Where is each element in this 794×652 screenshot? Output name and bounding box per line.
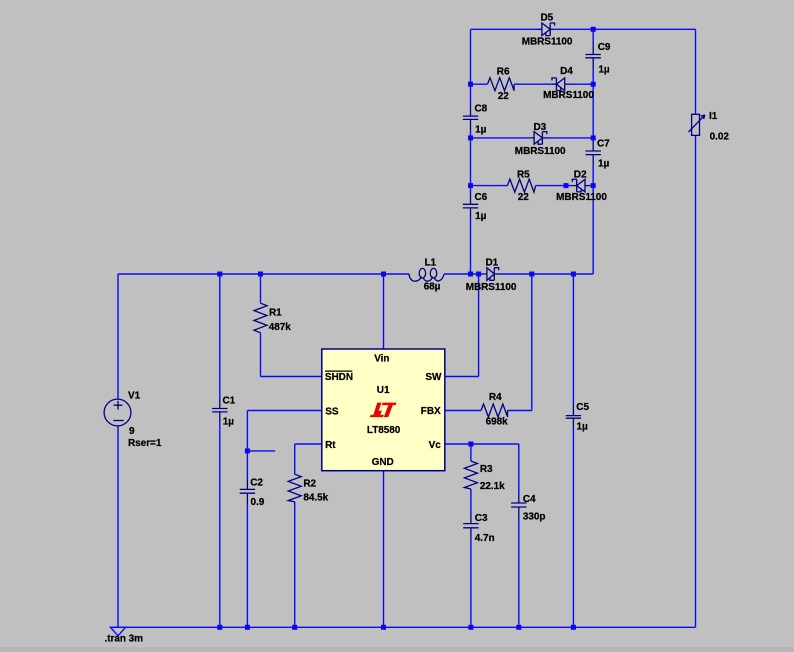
svg-text:22.1k: 22.1k [480,481,505,492]
svg-text:22: 22 [518,192,530,203]
svg-text:SS: SS [325,406,339,417]
svg-text:D3: D3 [534,122,547,133]
svg-text:R6: R6 [497,66,510,77]
svg-text:R2: R2 [303,479,316,490]
svg-text:Vc: Vc [429,440,442,451]
svg-text:330p: 330p [523,511,546,522]
svg-text:LT8580: LT8580 [367,425,401,436]
svg-text:R1: R1 [269,307,282,318]
svg-text:GND: GND [372,457,394,468]
svg-text:1µ: 1µ [223,417,235,428]
svg-text:U1: U1 [377,385,390,396]
svg-text:L1: L1 [425,257,437,268]
svg-text:V1: V1 [128,390,141,401]
svg-text:C8: C8 [475,103,488,114]
svg-text:I1: I1 [709,111,718,122]
svg-text:MBRS1100: MBRS1100 [543,90,594,101]
svg-text:C7: C7 [597,139,610,150]
svg-text:84.5k: 84.5k [303,492,328,503]
svg-text:R5: R5 [517,170,530,181]
svg-text:Vin: Vin [374,354,389,365]
svg-text:1µ: 1µ [475,211,487,222]
svg-text:0.9: 0.9 [251,497,265,508]
svg-text:C2: C2 [250,478,263,489]
svg-text:R3: R3 [480,464,493,475]
svg-text:C9: C9 [598,42,611,53]
svg-text:D4: D4 [560,66,573,77]
svg-text:22: 22 [498,91,510,102]
svg-text:1µ: 1µ [475,124,487,135]
svg-text:FBX: FBX [421,406,441,417]
svg-text:1µ: 1µ [577,422,589,433]
svg-text:0.02: 0.02 [710,132,730,143]
svg-text:9: 9 [129,426,135,437]
svg-text:SHDN: SHDN [325,372,353,383]
svg-text:D2: D2 [574,170,587,181]
svg-text:SW: SW [425,372,442,383]
svg-text:487k: 487k [269,322,292,333]
svg-text:C6: C6 [475,192,488,203]
svg-text:Rser=1: Rser=1 [128,438,162,449]
svg-text:698k: 698k [486,417,509,428]
svg-text:.tran 3m: .tran 3m [105,634,144,645]
svg-text:C3: C3 [475,513,488,524]
svg-text:C1: C1 [223,395,236,406]
svg-text:Rt: Rt [325,440,336,451]
svg-text:MBRS1100: MBRS1100 [556,192,607,203]
svg-text:4.7n: 4.7n [475,533,495,544]
svg-text:D5: D5 [541,13,554,24]
svg-text:C5: C5 [576,402,589,413]
svg-text:R4: R4 [489,392,502,403]
svg-text:1µ: 1µ [598,65,610,76]
svg-text:68µ: 68µ [424,282,441,293]
svg-text:MBRS1100: MBRS1100 [522,37,573,48]
svg-text:MBRS1100: MBRS1100 [466,282,517,293]
svg-text:C4: C4 [523,494,536,505]
svg-text:D1: D1 [486,257,499,268]
svg-text:1µ: 1µ [598,159,610,170]
svg-text:MBRS1100: MBRS1100 [515,146,566,157]
